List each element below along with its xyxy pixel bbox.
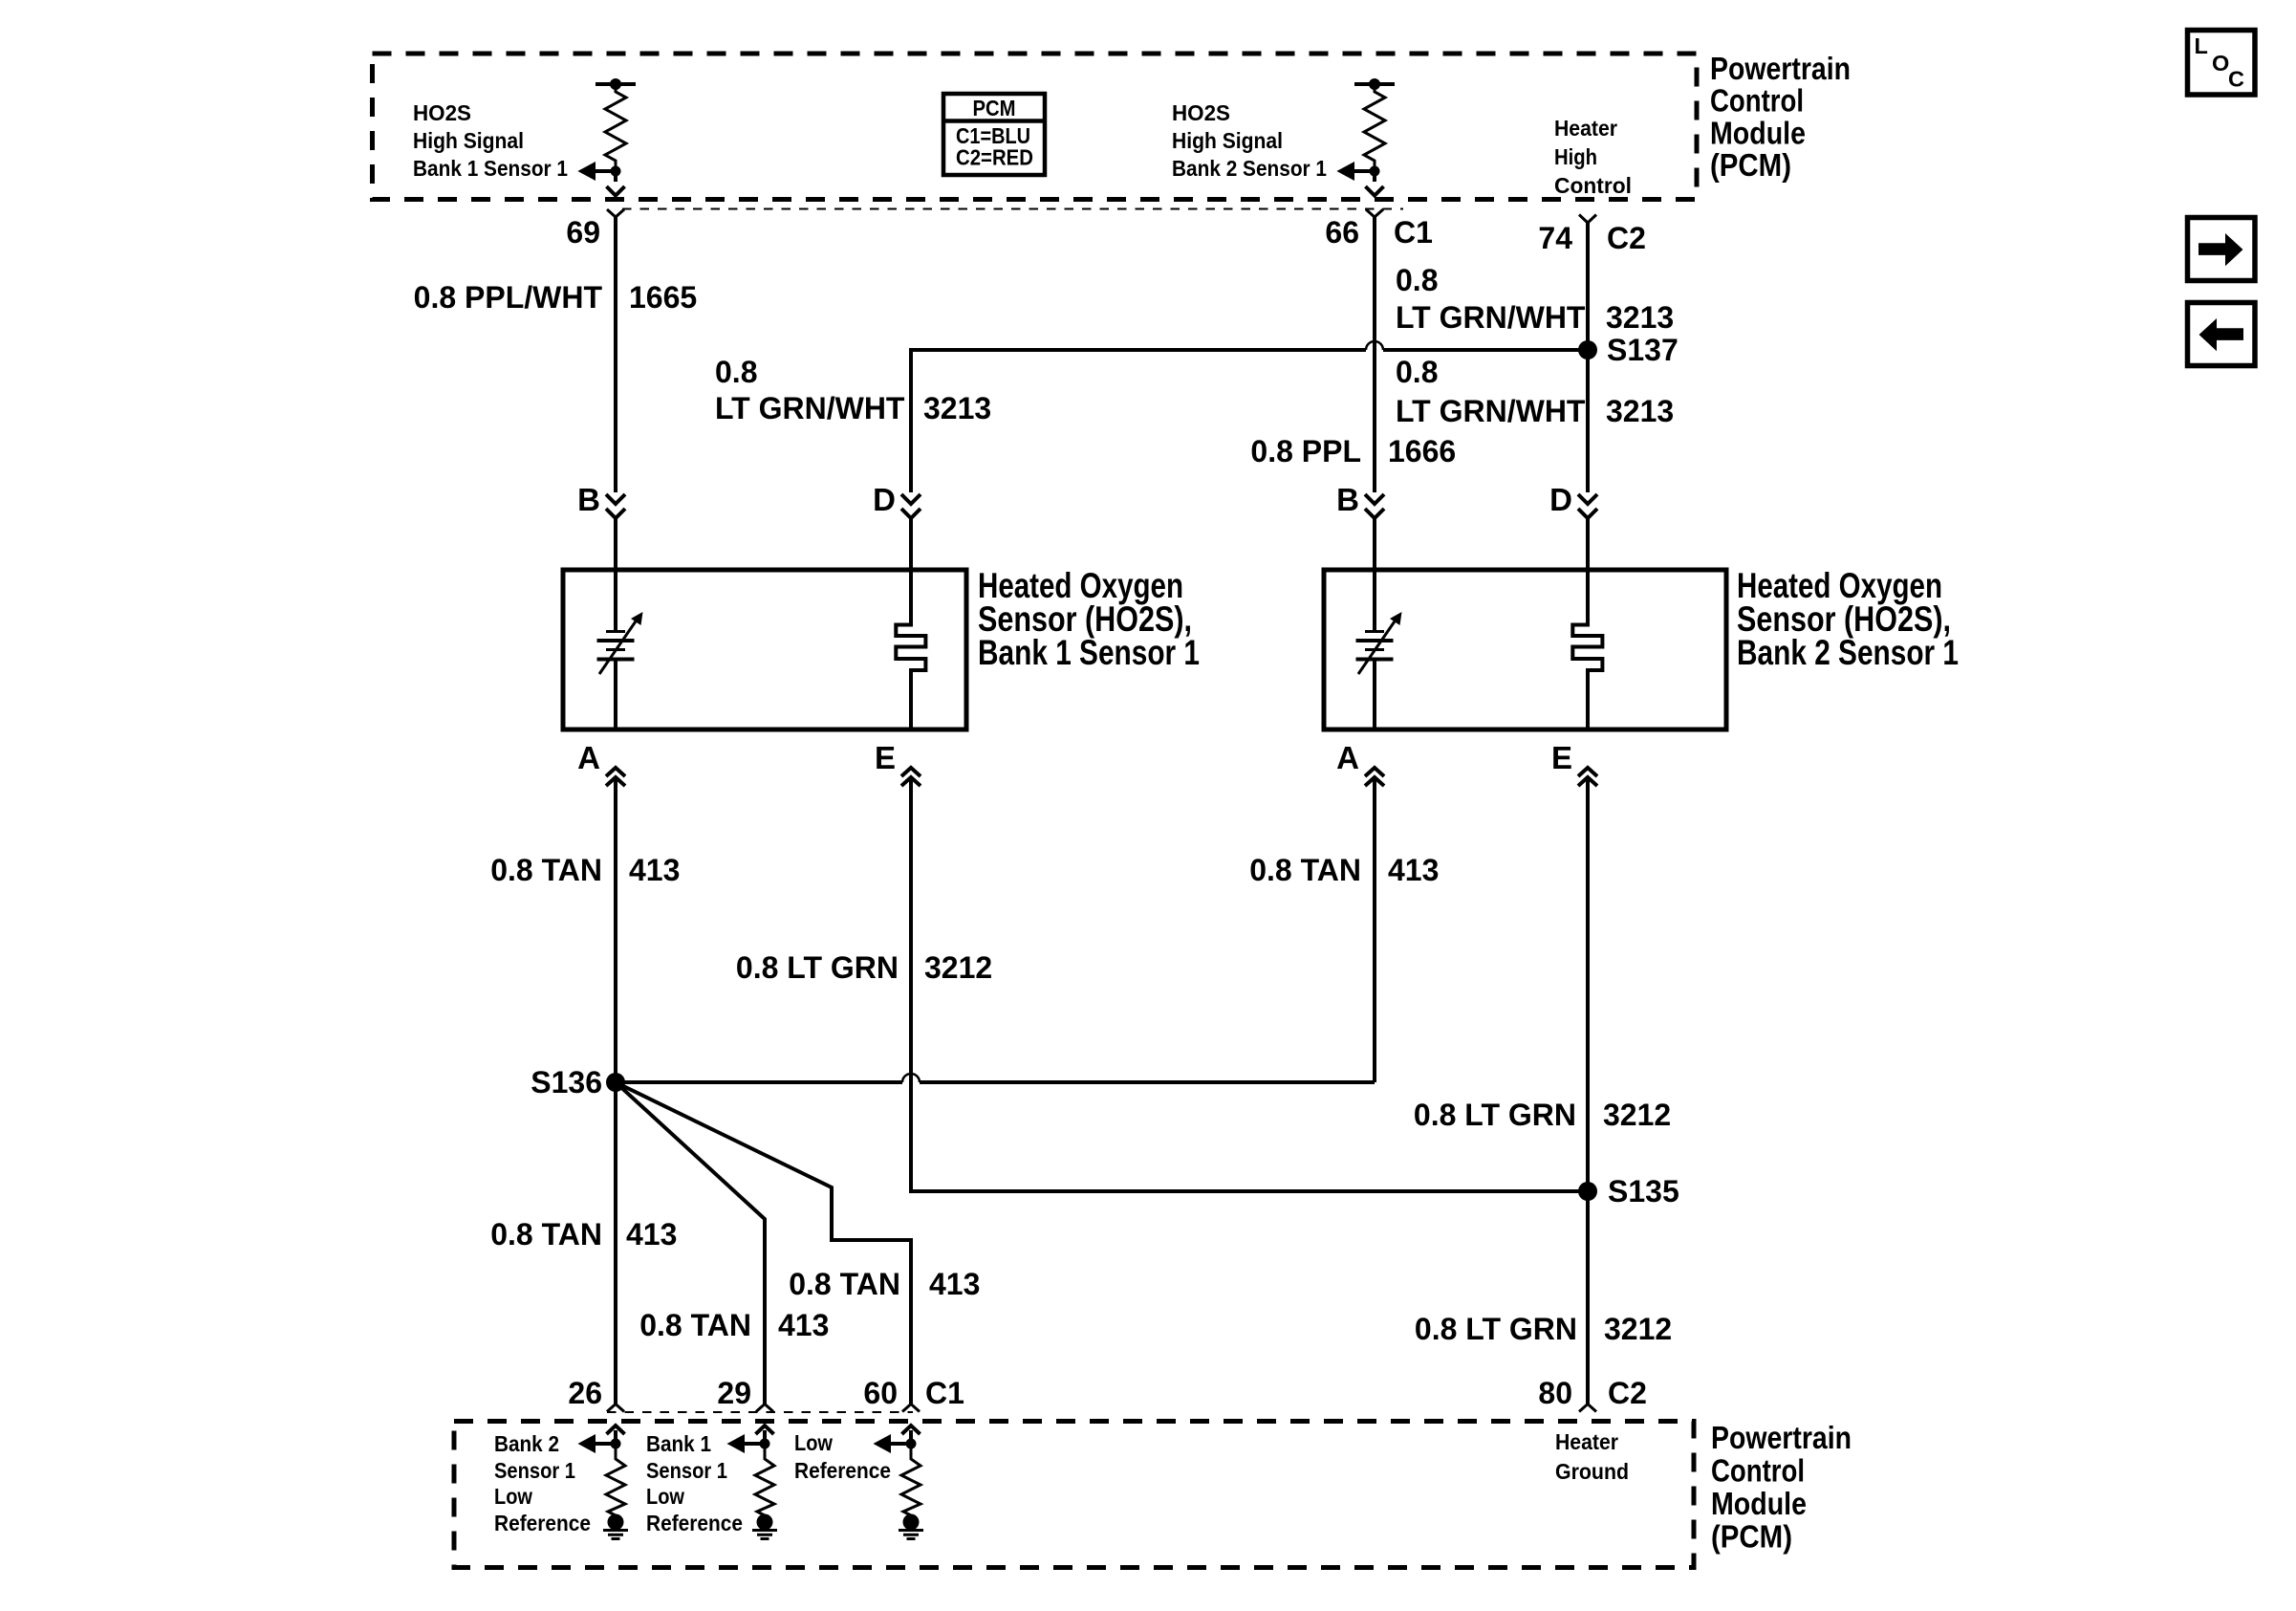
svg-text:Reference: Reference [646, 1511, 743, 1535]
svg-text:413: 413 [778, 1308, 829, 1342]
svg-text:LT GRN/WHT: LT GRN/WHT [1396, 300, 1586, 335]
svg-text:0.8 PPL/WHT: 0.8 PPL/WHT [414, 280, 603, 315]
svg-text:29: 29 [717, 1376, 751, 1410]
svg-text:1666: 1666 [1388, 434, 1456, 468]
svg-text:S137: S137 [1607, 333, 1679, 367]
svg-text:C: C [2228, 67, 2244, 92]
splice S136 [606, 1073, 625, 1092]
svg-text:0.8: 0.8 [1396, 263, 1438, 297]
svg-text:C2: C2 [1607, 221, 1646, 255]
wire 413: S136 diagonal to pin 60 [616, 1082, 911, 1404]
resistor (PCM internal, HO2S B2S1 high signal) [1336, 78, 1395, 196]
svg-text:A: A [577, 740, 600, 775]
svg-text:S136: S136 [531, 1065, 602, 1099]
wire S136 branch to B2S1 A wire (with hop) [616, 1080, 902, 1084]
pin E connector (HO2S B1S1) [901, 768, 921, 786]
svg-text:Reference: Reference [794, 1458, 891, 1483]
heater element B1S1 [896, 570, 925, 729]
svg-text:3213: 3213 [923, 391, 991, 425]
heater element B2S1 [1572, 570, 1602, 729]
svg-text:3213: 3213 [1606, 394, 1674, 428]
svg-text:D: D [1549, 482, 1572, 517]
svg-text:High Signal: High Signal [1172, 128, 1283, 153]
wire 3213: pin 74 to S137 [1586, 223, 1590, 350]
svg-text:E: E [1551, 740, 1572, 775]
svg-text:0.8 TAN: 0.8 TAN [490, 1217, 602, 1252]
svg-text:(PCM): (PCM) [1710, 147, 1791, 183]
svg-text:HO2S: HO2S [413, 100, 471, 125]
svg-text:PCM: PCM [973, 96, 1016, 120]
O2 sensing element B1S1 [597, 570, 643, 729]
PCM top module dashed box [373, 54, 1698, 200]
svg-text:0.8: 0.8 [1396, 355, 1438, 389]
pin 29 connector fork [756, 1404, 773, 1412]
pin D connector (HO2S B2S1) [1578, 494, 1597, 518]
svg-text:66: 66 [1325, 215, 1359, 250]
svg-text:0.8 TAN: 0.8 TAN [490, 853, 602, 887]
svg-text:A: A [1336, 740, 1359, 775]
O2 sensing element B2S1 [1356, 570, 1402, 729]
PCM bottom connector face thin dashed line [607, 1411, 913, 1413]
pin 74 connector fork [1579, 215, 1596, 224]
Heated Oxygen Sensor Bank 1 box [563, 570, 966, 729]
svg-text:0.8 TAN: 0.8 TAN [789, 1267, 900, 1301]
hop over wire 1666 [1366, 341, 1383, 350]
svg-text:0.8: 0.8 [715, 355, 757, 389]
pin A connector (HO2S B2S1) [1365, 768, 1384, 786]
pin B connector (HO2S B2S1) [1365, 494, 1384, 518]
svg-text:413: 413 [626, 1217, 677, 1252]
svg-text:B: B [577, 482, 600, 517]
svg-text:S135: S135 [1608, 1174, 1679, 1208]
pull-down resistor pin 26 (Bank 2 Sensor 1 Low Reference) [578, 1426, 629, 1539]
pin E connector (HO2S B2S1) [1578, 768, 1597, 786]
wire stubs into sensor boxes [616, 518, 1588, 570]
svg-text:Bank 2 Sensor 1: Bank 2 Sensor 1 [1172, 156, 1327, 181]
svg-text:C2: C2 [1608, 1376, 1647, 1410]
pin 26 connector fork [607, 1404, 624, 1412]
svg-text:C2=RED: C2=RED [956, 145, 1033, 170]
svg-text:Module: Module [1711, 1486, 1807, 1521]
svg-text:Module: Module [1710, 116, 1806, 151]
svg-text:413: 413 [629, 853, 680, 887]
svg-text:C1: C1 [925, 1376, 964, 1410]
svg-text:0.8 TAN: 0.8 TAN [639, 1308, 751, 1342]
svg-text:Heater: Heater [1555, 1429, 1618, 1454]
svg-text:3212: 3212 [1603, 1098, 1671, 1132]
svg-text:C1: C1 [1394, 215, 1433, 250]
svg-text:B: B [1336, 482, 1359, 517]
svg-text:Ground: Ground [1555, 1459, 1629, 1484]
right arrow icon box [2188, 218, 2256, 281]
pin B connector (HO2S B1S1) [606, 494, 625, 518]
splice S137 [1578, 340, 1597, 359]
svg-text:1665: 1665 [629, 280, 697, 315]
svg-text:Control: Control [1554, 173, 1632, 198]
PCM connector legend box [943, 94, 1045, 175]
PCM bottom module dashed box [454, 1422, 1694, 1568]
svg-text:Bank 1 Sensor 1: Bank 1 Sensor 1 [978, 633, 1200, 672]
wire 413: HO2S B1S1 pin A to S136 [614, 777, 617, 1082]
svg-text:Control: Control [1711, 1453, 1805, 1489]
pin D connector (HO2S B1S1) [901, 494, 921, 518]
pin A connector (HO2S B1S1) [606, 768, 625, 786]
svg-text:Sensor 1: Sensor 1 [494, 1458, 575, 1483]
svg-text:D: D [873, 482, 896, 517]
svg-text:Control: Control [1710, 83, 1804, 119]
pin 69 connector fork [607, 209, 624, 217]
svg-text:HO2S: HO2S [1172, 100, 1230, 125]
svg-text:(PCM): (PCM) [1711, 1519, 1792, 1555]
svg-text:Bank 2: Bank 2 [494, 1431, 559, 1456]
svg-text:Low: Low [794, 1430, 834, 1455]
svg-text:Powertrain: Powertrain [1710, 51, 1851, 86]
pull-down resistor pin 29 (Bank 1 Sensor 1 Low Reference) [727, 1426, 778, 1539]
wire 3212: HO2S B2S1 pin E through S135 to pin 80 [1586, 777, 1590, 1404]
splice S135 [1578, 1182, 1597, 1201]
svg-text:High Signal: High Signal [413, 128, 524, 153]
wire 3212: HO2S B1S1 pin E down then right to S135 [911, 777, 1588, 1191]
svg-text:Bank 1: Bank 1 [646, 1431, 711, 1456]
svg-text:0.8 LT GRN: 0.8 LT GRN [1415, 1312, 1577, 1346]
svg-text:LT GRN/WHT: LT GRN/WHT [1396, 394, 1586, 428]
wire 1666: pin 66 to HO2S B2S1 pin B [1373, 217, 1376, 492]
svg-text:0.8 PPL: 0.8 PPL [1250, 434, 1361, 468]
svg-text:3213: 3213 [1606, 300, 1674, 335]
svg-text:26: 26 [568, 1376, 602, 1410]
svg-text:3212: 3212 [924, 950, 992, 985]
wire 413: HO2S B2S1 pin A down to S136 branch [1373, 777, 1376, 1082]
wire 3213: S137 to HO2S B2S1 pin D [1586, 350, 1590, 492]
svg-text:L: L [2195, 33, 2208, 58]
svg-text:0.8 TAN: 0.8 TAN [1249, 853, 1361, 887]
svg-text:413: 413 [1388, 853, 1439, 887]
svg-text:Sensor 1: Sensor 1 [646, 1458, 727, 1483]
left arrow icon box [2188, 303, 2256, 366]
svg-text:E: E [875, 740, 896, 775]
LOC icon box [2188, 31, 2256, 96]
svg-text:Reference: Reference [494, 1511, 591, 1535]
pin 80 connector fork [1579, 1404, 1596, 1412]
svg-text:69: 69 [566, 215, 600, 250]
svg-text:Heater: Heater [1554, 116, 1617, 141]
wire 1665: pin 69 to HO2S B1S1 pin B [614, 217, 617, 492]
svg-text:Low: Low [646, 1484, 685, 1509]
svg-text:O: O [2212, 51, 2229, 76]
svg-text:0.8 LT GRN: 0.8 LT GRN [736, 950, 899, 985]
resistor (PCM internal, HO2S B1S1 high signal) [577, 78, 636, 196]
PCM top connector face thin dashed line [622, 208, 1403, 210]
svg-text:0.8 LT GRN: 0.8 LT GRN [1414, 1098, 1576, 1132]
svg-text:LT GRN/WHT: LT GRN/WHT [715, 391, 905, 425]
wire 413: S136 diagonal to pin 29 [616, 1082, 765, 1404]
wire 413: S136 to pin 26 [614, 1082, 617, 1404]
svg-text:3212: 3212 [1604, 1312, 1672, 1346]
svg-text:60: 60 [863, 1376, 898, 1410]
wire 3213 continues to S137 [1383, 348, 1588, 352]
svg-text:Powertrain: Powertrain [1711, 1420, 1852, 1455]
svg-text:Low: Low [494, 1484, 533, 1509]
Heated Oxygen Sensor Bank 2 box [1324, 570, 1726, 729]
svg-text:High: High [1554, 144, 1597, 169]
svg-text:Bank 1 Sensor 1: Bank 1 Sensor 1 [413, 156, 568, 181]
svg-text:80: 80 [1538, 1376, 1572, 1410]
svg-text:74: 74 [1538, 221, 1572, 255]
pin 60 connector fork [902, 1404, 920, 1412]
pull-down resistor pin 60 (Low Reference) [874, 1426, 924, 1539]
svg-text:413: 413 [929, 1267, 980, 1301]
pin 66 connector fork [1366, 209, 1383, 217]
wire 3213: S137 to HO2S B1S1 pin D [911, 350, 1366, 492]
svg-text:Bank 2 Sensor 1: Bank 2 Sensor 1 [1737, 633, 1959, 672]
